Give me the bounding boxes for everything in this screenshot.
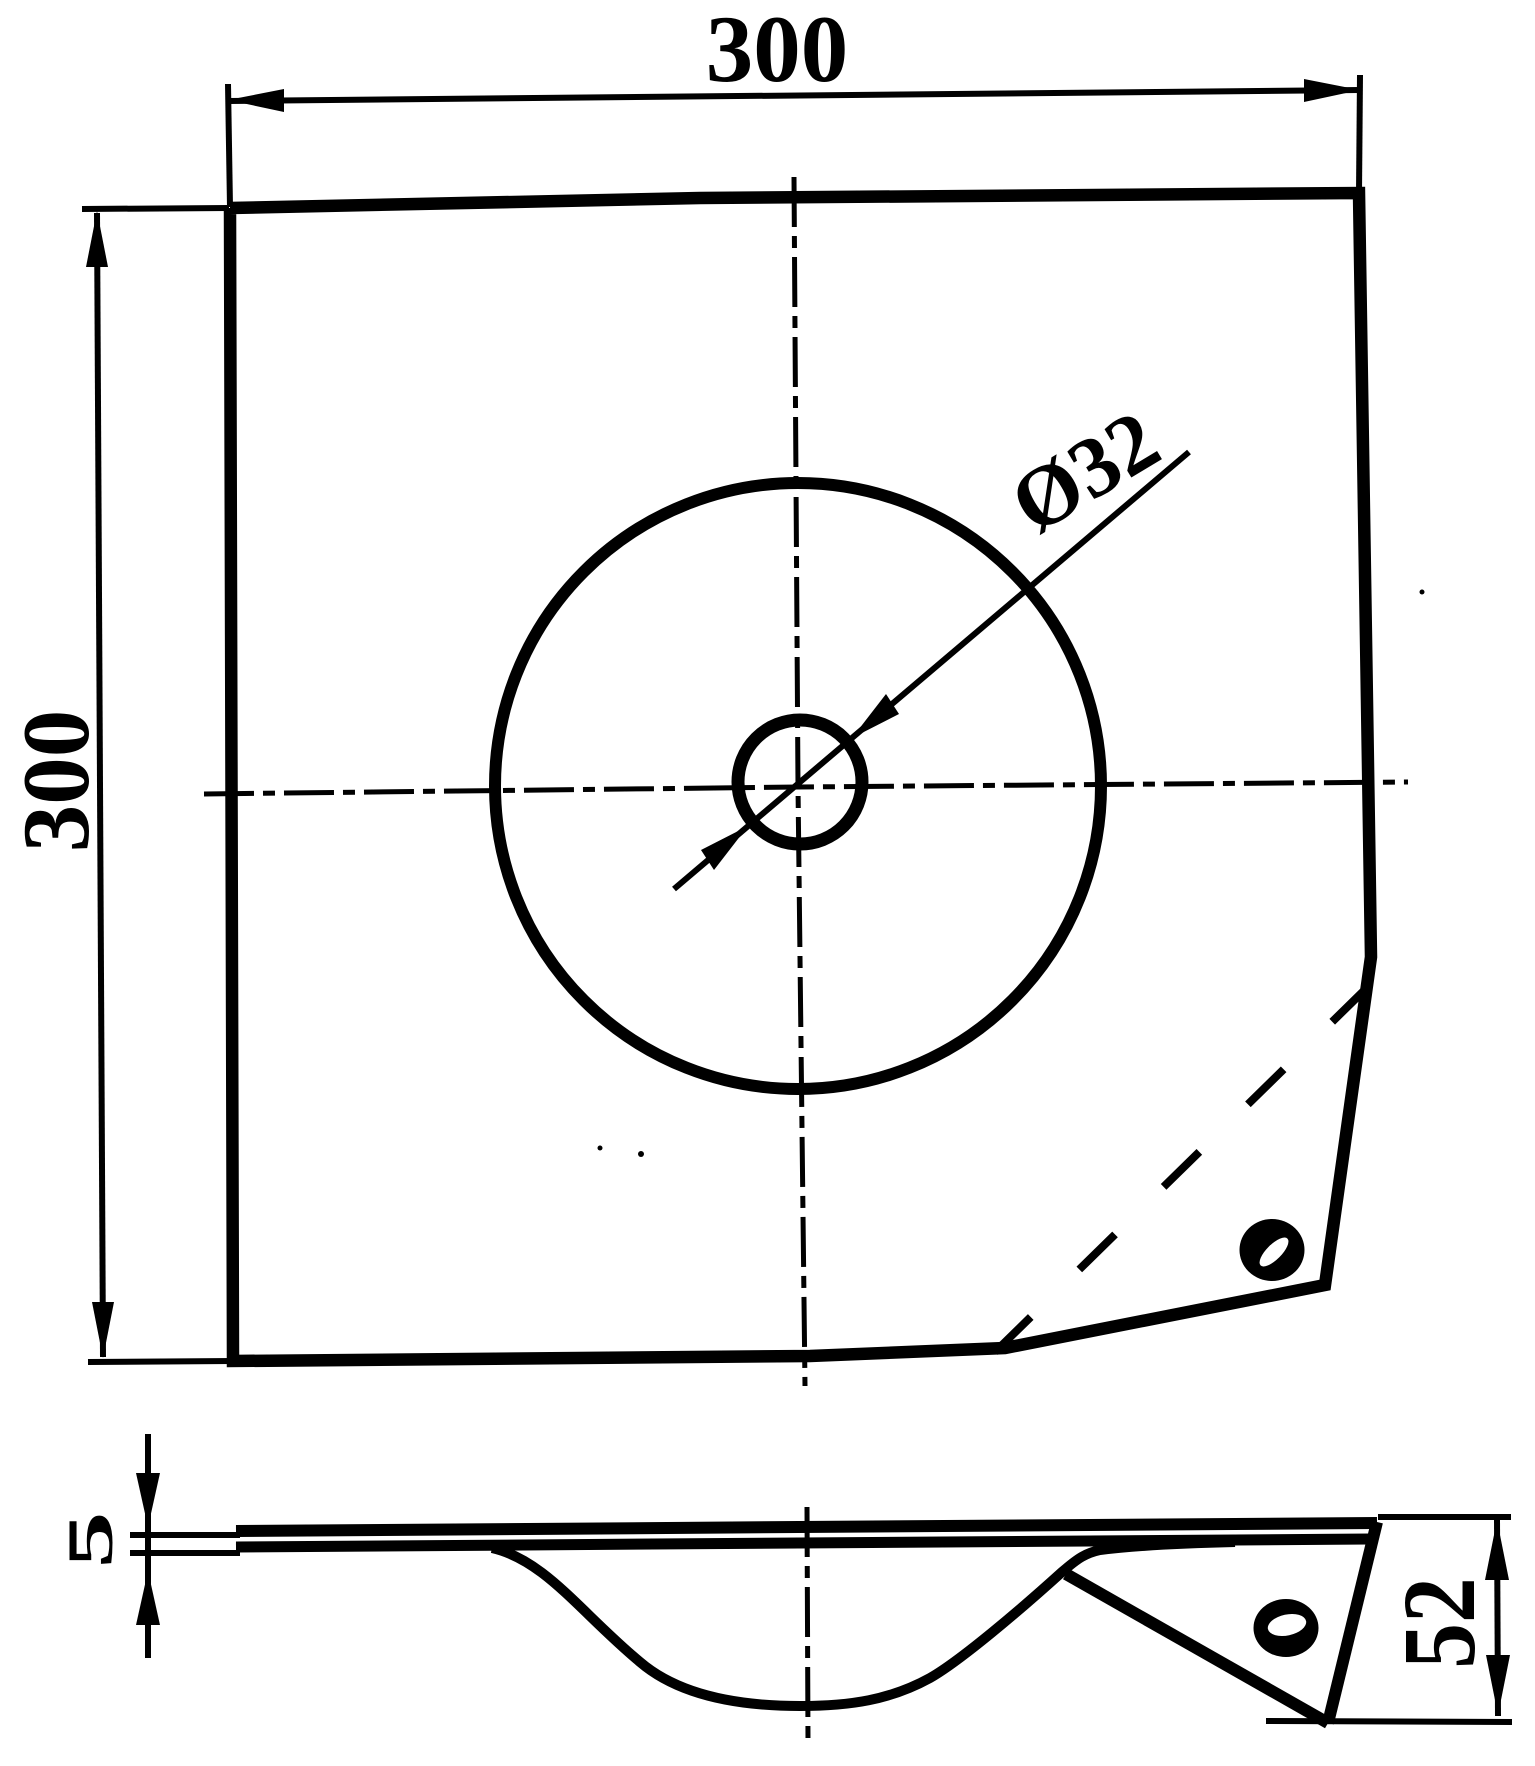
svg-text:5: 5 bbox=[54, 1512, 126, 1569]
svg-text:300: 300 bbox=[706, 0, 849, 102]
svg-text:52: 52 bbox=[1383, 1577, 1498, 1669]
svg-text:300: 300 bbox=[3, 710, 109, 853]
svg-text:Ø32: Ø32 bbox=[994, 391, 1175, 552]
